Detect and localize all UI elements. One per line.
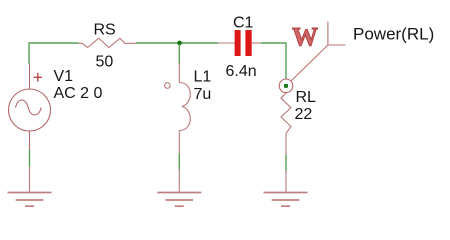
svg-text:RL: RL — [296, 89, 317, 106]
probe node circle — [279, 79, 293, 93]
voltage source V1 — [9, 64, 51, 151]
resistor RL — [281, 93, 291, 156]
wire L1 to ground — [178, 154, 180, 171]
svg-text:6.4n: 6.4n — [226, 63, 257, 80]
L1 phase dot — [165, 83, 171, 89]
svg-text:50: 50 — [96, 54, 114, 71]
ground left — [8, 167, 52, 207]
wire C1 to probe node — [261, 43, 286, 79]
V1 polarity plus — [34, 73, 43, 82]
wire V1 to ground — [29, 150, 31, 167]
svg-text:7u: 7u — [194, 86, 212, 103]
resistor RS — [78, 38, 136, 47]
svg-text:W: W — [292, 23, 318, 52]
svg-text:Power(RL): Power(RL) — [353, 25, 434, 44]
capacitor C1 — [218, 30, 261, 56]
svg-text:C1: C1 — [233, 15, 254, 32]
ground middle — [157, 170, 201, 207]
svg-text:V1: V1 — [54, 68, 74, 85]
junction dot in node — [284, 84, 288, 88]
svg-text:22: 22 — [295, 106, 313, 123]
svg-text:RS: RS — [94, 21, 116, 38]
ground right — [264, 171, 308, 206]
power meter probe lines — [291, 22, 346, 82]
svg-text:AC 2 0: AC 2 0 — [54, 85, 103, 102]
wire top-left from V1 to RS — [29, 43, 79, 64]
junction node dot — [177, 41, 182, 46]
inductor L1 — [179, 63, 190, 154]
wire RS to C1 — [136, 42, 218, 44]
wire RL to ground — [285, 155, 287, 172]
svg-text:L1: L1 — [194, 69, 212, 86]
wire junction to L1 — [178, 44, 180, 64]
